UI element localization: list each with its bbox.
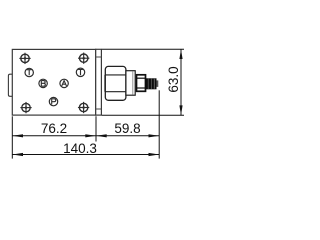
stem tip xyxy=(156,80,158,87)
side view block xyxy=(96,49,102,115)
mounting hole top-right xyxy=(78,53,89,64)
adjustment locknut xyxy=(137,75,146,92)
svg-text:140.3: 140.3 xyxy=(63,141,97,156)
dimension 140.3 xyxy=(12,141,159,156)
dimension 63.0 extension bottom xyxy=(102,114,184,116)
valve hex body xyxy=(105,66,126,100)
svg-text:63.0: 63.0 xyxy=(166,66,181,92)
extension line right (x 159.2) xyxy=(158,90,160,158)
collar step line xyxy=(132,71,134,94)
port T right xyxy=(76,68,84,76)
mounting hole bottom-left xyxy=(20,102,31,113)
subplate front view body xyxy=(12,49,95,115)
extension line middle (x 96) xyxy=(95,116,97,141)
port P xyxy=(49,97,57,105)
extension line left (x 12.3) xyxy=(11,116,13,158)
left side tab xyxy=(8,74,12,96)
svg-text:59.8: 59.8 xyxy=(114,121,140,136)
dimension 63.0 xyxy=(166,49,183,115)
port B xyxy=(39,79,47,87)
mounting hole bottom-right xyxy=(78,102,89,113)
port T left xyxy=(25,68,33,76)
port A xyxy=(60,79,68,87)
valve collar xyxy=(126,71,135,96)
dimension 59.8 xyxy=(96,121,159,138)
mounting hole top-left xyxy=(19,53,30,64)
svg-text:76.2: 76.2 xyxy=(41,121,67,136)
dimension 76.2 xyxy=(12,121,96,138)
block inner line upper xyxy=(96,56,102,58)
dimension 63.0 extension top xyxy=(102,48,184,50)
block inner line lower xyxy=(96,108,102,110)
threaded adjustment stem xyxy=(145,78,157,89)
